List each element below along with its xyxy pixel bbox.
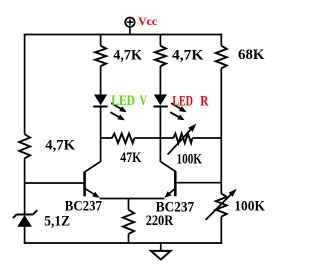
svg-text:BC237: BC237 [65, 199, 103, 215]
svg-text:Vcc: Vcc [138, 16, 157, 28]
svg-text:V: V [140, 93, 148, 109]
svg-text:5,1Z: 5,1Z [44, 214, 70, 230]
svg-text:100K: 100K [177, 152, 203, 168]
svg-text:4,7K: 4,7K [113, 48, 142, 64]
svg-text:LED: LED [111, 93, 135, 109]
svg-text:LED: LED [172, 93, 193, 109]
svg-text:220R: 220R [146, 213, 174, 229]
svg-text:68K: 68K [238, 47, 265, 63]
svg-text:4,7K: 4,7K [172, 48, 204, 64]
svg-text:100K: 100K [234, 198, 265, 214]
svg-text:47K: 47K [120, 150, 141, 166]
svg-text:R: R [200, 93, 208, 109]
svg-text:4,7K: 4,7K [45, 137, 75, 153]
